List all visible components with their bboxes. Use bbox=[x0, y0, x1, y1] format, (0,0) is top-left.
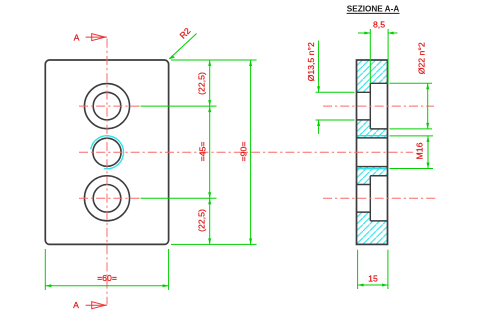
svg-text:(22,5): (22,5) bbox=[196, 209, 206, 232]
svg-text:Ø22 n°2: Ø22 n°2 bbox=[417, 42, 427, 74]
svg-text:=90=: =90= bbox=[239, 142, 249, 162]
svg-text:M16: M16 bbox=[414, 142, 424, 159]
svg-text:8,5: 8,5 bbox=[373, 20, 385, 30]
svg-text:A: A bbox=[74, 33, 80, 43]
svg-text:=60=: =60= bbox=[97, 273, 117, 283]
svg-text:Ø13,5 n°2: Ø13,5 n°2 bbox=[306, 42, 316, 81]
svg-text:SEZIONE A-A: SEZIONE A-A bbox=[347, 5, 400, 14]
svg-text:(22,5): (22,5) bbox=[196, 72, 206, 95]
svg-text:A: A bbox=[73, 300, 79, 310]
svg-text:15: 15 bbox=[368, 274, 378, 284]
svg-text:=45=: =45= bbox=[197, 142, 207, 162]
